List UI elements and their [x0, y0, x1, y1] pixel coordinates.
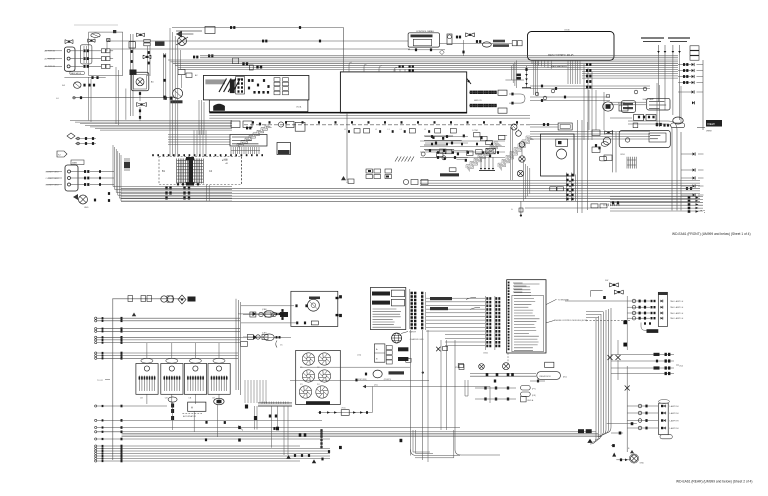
svg-text:CN A5: CN A5 [564, 29, 571, 32]
svg-text:(F8): (F8) [532, 395, 536, 397]
svg-text:MAIN CN: MAIN CN [474, 99, 482, 102]
svg-text:GND: GND [224, 159, 229, 161]
svg-text:(R1): (R1) [342, 408, 346, 410]
svg-text:(C5): (C5) [357, 355, 361, 357]
svg-text:GND A: GND A [527, 399, 534, 402]
svg-text:C-PWR: C-PWR [472, 130, 479, 132]
svg-text:TAIL LAMP LH: TAIL LAMP LH [670, 317, 684, 320]
svg-text:LAMP RH: LAMP RH [670, 420, 679, 423]
svg-text:AC PWR IN: AC PWR IN [45, 65, 56, 68]
svg-text:CLOSET VENT: CLOSET VENT [46, 178, 60, 180]
svg-text:VIEW: VIEW [707, 122, 715, 126]
svg-text:CN1 A: CN1 A [296, 106, 302, 109]
svg-text:MAIN VALVE: MAIN VALVE [71, 72, 82, 75]
svg-text:(R2): (R2) [563, 377, 567, 379]
svg-text:RELAY BOX: RELAY BOX [540, 375, 552, 378]
svg-text:GND: GND [640, 463, 645, 465]
svg-text:LAMP RH: LAMP RH [670, 427, 679, 430]
svg-text:ENGINE CONTROL MODULE (ECM): ENGINE CONTROL MODULE (ECM) [554, 320, 588, 322]
svg-text:(CB7): (CB7) [262, 332, 267, 334]
svg-text:TAIL LAMP LH: TAIL LAMP LH [670, 300, 684, 303]
svg-text:WD-EA61 (REAR) (UM999 and belo: WD-EA61 (REAR) (UM999 and below) (Sheet … [676, 480, 752, 484]
svg-text:CLOSET VENT: CLOSET VENT [46, 171, 60, 173]
svg-text:L1: L1 [424, 129, 426, 131]
svg-text:AC PWR IN: AC PWR IN [45, 57, 56, 60]
svg-text:CN21: CN21 [483, 353, 489, 355]
svg-text:TAIL LAMP LH: TAIL LAMP LH [670, 306, 684, 309]
svg-text:LAMP RH: LAMP RH [670, 412, 679, 415]
svg-text:H: H [191, 406, 193, 410]
svg-text:CHASSIS GND: CHASSIS GND [410, 338, 424, 341]
svg-text:WD-EA61 (FRONT) (UM999 and bel: WD-EA61 (FRONT) (UM999 and below) (Sheet… [672, 232, 751, 236]
svg-text:L1: L1 [388, 129, 390, 131]
svg-text:ALTERNATOR: ALTERNATOR [183, 415, 197, 418]
svg-text:(X2): (X2) [679, 366, 683, 368]
svg-text:TO X2: TO X2 [97, 380, 104, 382]
svg-text:MAIN: MAIN [72, 162, 78, 165]
svg-text:GND: GND [84, 207, 89, 209]
svg-text:RN1: RN1 [621, 154, 626, 156]
svg-text:VIEW: VIEW [706, 131, 713, 133]
svg-text:(Y): (Y) [280, 345, 283, 347]
svg-text:(CB6): (CB6) [262, 309, 267, 311]
svg-text:L1: L1 [344, 129, 346, 131]
svg-text:CLOSET VENT: CLOSET VENT [46, 184, 60, 186]
svg-text:LAMP RH: LAMP RH [670, 405, 679, 408]
svg-text:(X1): (X1) [374, 385, 378, 387]
svg-text:CONTROL PANEL: CONTROL PANEL [416, 30, 435, 33]
svg-text:TAIL LAMP LH: TAIL LAMP LH [670, 312, 684, 315]
svg-text:L1: L1 [400, 129, 402, 131]
svg-text:L1: L1 [375, 129, 377, 131]
svg-text:(F7): (F7) [532, 389, 536, 391]
svg-text:SW: SW [605, 280, 608, 282]
svg-text:MAIN CONTROLLER A5: MAIN CONTROLLER A5 [548, 54, 574, 57]
svg-text:AC PWR IN: AC PWR IN [45, 50, 56, 53]
